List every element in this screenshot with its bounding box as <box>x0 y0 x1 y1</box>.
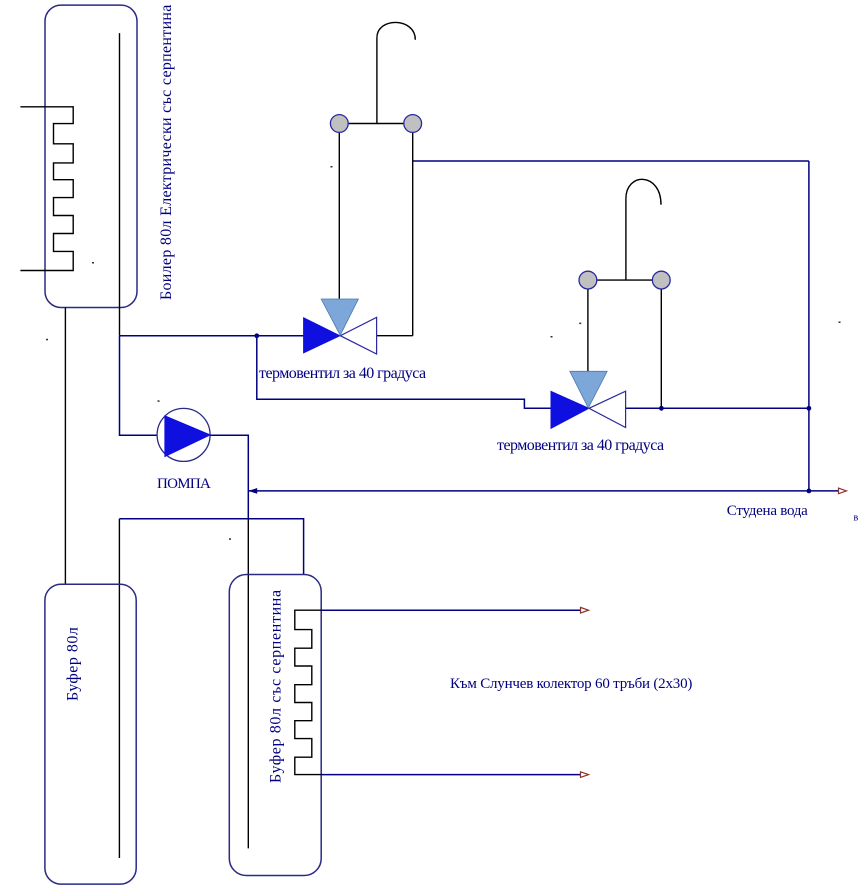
speck 6 <box>579 323 581 325</box>
speck 1 <box>92 262 94 264</box>
wire cold water line <box>248 490 843 492</box>
speck 8 <box>839 322 841 324</box>
node junction J2 <box>659 406 664 411</box>
arrow solar flow <box>581 607 589 613</box>
valve V2 frame top bar <box>588 279 661 281</box>
svg-text:Буфер 80л: Буфер 80л <box>65 627 82 701</box>
valve V1 outlet stub <box>377 335 413 337</box>
wire pump inlet <box>120 336 158 436</box>
svg-text:Студена вода: Студена вода <box>727 503 808 519</box>
valve V1 frame right leg <box>412 131 414 336</box>
valve V2 sensor bulb right <box>652 271 670 289</box>
pump P1 body <box>157 408 210 461</box>
valve V2 sensor stem <box>625 199 627 281</box>
wire valve V2 outlet to right frame <box>626 407 809 409</box>
boiler B1 heating coil <box>20 107 73 271</box>
valve V1 body left <box>304 318 340 353</box>
wire solar collector return <box>321 774 585 776</box>
speck 7 <box>551 336 553 338</box>
wire pump line into buffer B3 dip tube <box>247 519 249 849</box>
svg-text:Към Слунчев колектор 60 тръби: Към Слунчев колектор 60 тръби (2x30) <box>450 676 692 692</box>
wire drop to buffer B2 dip tube <box>118 519 120 858</box>
node junction J1 <box>254 333 259 338</box>
wire pump outlet <box>210 435 249 519</box>
valve V1 frame stem <box>338 131 340 299</box>
valve V1 sensor bulb right <box>404 115 422 133</box>
valve V1 body right <box>340 317 376 354</box>
wire solar collector flow <box>321 609 585 611</box>
valve V2 frame right leg <box>660 288 662 408</box>
wire boiler B1 bottom to buffer B2 top <box>64 308 66 585</box>
valve V1 capillary hook <box>377 22 415 39</box>
boiler B1 dip tube <box>119 33 121 336</box>
valve V1 sensor bulb left <box>330 115 348 133</box>
valve V2 body left <box>551 391 589 428</box>
valve V1 frame top bar <box>339 123 412 125</box>
svg-text:термовентил за 40 градуса: термовентил за 40 градуса <box>259 365 426 382</box>
speck 4 <box>229 538 231 540</box>
buffer tank B3 coil <box>295 610 321 774</box>
svg-text:в: в <box>854 513 859 524</box>
valve V2 sensor bulb left <box>579 271 597 289</box>
wire header to buffer tanks <box>119 519 303 575</box>
arrow cold water supply <box>839 488 847 494</box>
wire valve V1 branch to right frame <box>413 160 809 162</box>
valve V1 actuator <box>321 299 358 335</box>
speck 3 <box>158 400 160 402</box>
valve V2 body right <box>589 391 626 427</box>
arrow cold water into junction <box>249 488 258 494</box>
svg-text:Боилер 80л Електрически със се: Боилер 80л Електрически със серпентина <box>158 4 175 300</box>
valve V2 actuator <box>570 371 607 408</box>
wire boiler outlet to valve V1 <box>120 335 304 337</box>
svg-text:термовентил за 40 градуса: термовентил за 40 градуса <box>497 437 664 454</box>
node junction J3 <box>807 406 812 411</box>
wire right frame vertical <box>808 161 810 491</box>
buffer tank B2 outline <box>45 584 136 884</box>
node junction J4 <box>807 489 812 494</box>
svg-text:ПОМПА: ПОМПА <box>157 476 211 492</box>
speck 2 <box>46 339 48 341</box>
arrow solar return <box>581 772 589 778</box>
valve V2 frame stem <box>587 288 589 371</box>
buffer tank B3 outline <box>229 575 321 876</box>
speck 5 <box>331 166 333 168</box>
valve V2 capillary hook <box>626 179 661 204</box>
valve V1 sensor stem <box>376 38 378 124</box>
svg-text:Буфер 80л със серпентина: Буфер 80л със серпентина <box>268 589 285 783</box>
boiler B1 outline <box>45 5 137 307</box>
wire junction J1 to valve V2 inlet <box>257 336 551 409</box>
pump P1 rotor <box>165 416 210 457</box>
